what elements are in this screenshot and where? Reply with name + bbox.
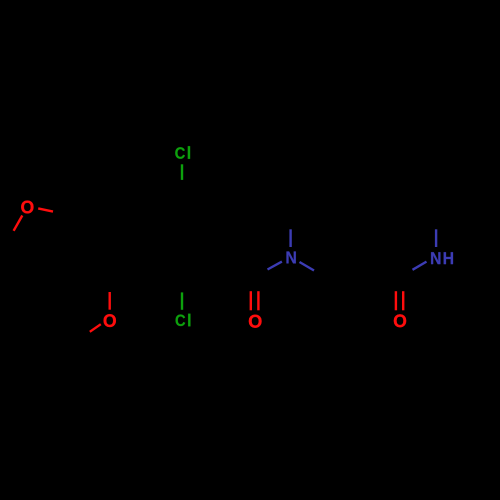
double bond C=O4 line 2 [402,291,404,310]
atom O4 (amide carbonyl oxygen, right) [394,314,406,327]
bond N1-CH3 (vertical half-bond above) [289,229,291,247]
bond C-O2 (vertical half-bond above) [108,292,110,310]
atom O1 (ring ether oxygen, top-left) [21,201,33,214]
bond C-N2 (down-left half-bond) [413,262,427,270]
bond O1-C (down-left half-bond) [14,216,23,231]
bond O2-CH3 (down-left half-bond) [90,324,101,332]
atom N1 (tertiary amide nitrogen) [287,251,296,263]
double bond C=O4 line 1 [395,291,397,310]
bond C-Cl2 (vertical half-bond above) [181,292,183,309]
bond N2-CH3 (vertical half-bond above) [435,229,437,247]
atom Cl2 (bottom chlorine) [176,315,186,326]
double bond C=O3 line 1 [250,291,252,310]
atom Cl1 (top chlorine) [175,147,185,158]
atom N2 (secondary amide N-H) [431,252,440,264]
bond Cl1-C (vertical half-bond below) [181,164,183,180]
bond N1-CH2 (down-right half-bond) [300,262,315,271]
bond O1-C (right half-bond) [38,208,53,211]
atom O2 (methoxy oxygen) [104,314,116,327]
atom O3 (amide carbonyl oxygen, left) [249,315,262,328]
bond C-N1 (down-left half-bond) [268,262,282,270]
double bond C=O3 line 2 [257,291,259,310]
